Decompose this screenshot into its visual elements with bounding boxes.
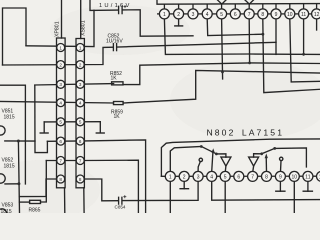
svg-text:XP801: XP801	[55, 21, 61, 37]
svg-text:11: 11	[305, 174, 310, 180]
wire N801 pin11 riser	[303, 19, 305, 55]
svg-text:1U/16V: 1U/16V	[106, 38, 123, 44]
arrowhead pin8 switch2	[265, 153, 268, 158]
svg-text:2: 2	[59, 62, 62, 67]
svg-text:8: 8	[261, 12, 264, 18]
wire N801 pin4 to pin8 riser	[207, 19, 263, 36]
svg-text:4: 4	[210, 174, 213, 180]
pin numbers XP801	[59, 45, 81, 182]
svg-text:1K: 1K	[111, 75, 118, 81]
node switch2 arm end	[260, 152, 263, 155]
svg-text:1: 1	[59, 45, 62, 50]
wire contact to pin9	[280, 161, 283, 172]
svg-text:5: 5	[220, 12, 223, 18]
svg-text:N802 LA7151: N802 LA7151	[207, 127, 285, 137]
svg-text:8: 8	[265, 174, 268, 180]
plus mark C854	[123, 195, 126, 198]
op-amp buffer A1	[221, 157, 231, 166]
arrow from N802 pin8	[265, 156, 267, 171]
wire row3 left segment	[0, 85, 25, 184]
wire N801 pin5 riser	[222, 19, 223, 79]
svg-text:7: 7	[251, 174, 254, 180]
wire V852 emitter row	[5, 183, 19, 185]
svg-text:3: 3	[197, 174, 200, 180]
wire row3 through connectors to R852	[35, 84, 114, 85]
svg-text:1: 1	[79, 45, 82, 50]
wire R859 right long line to right edge	[123, 70, 320, 103]
svg-text:3: 3	[192, 12, 195, 18]
N801 internal V mark above pin7	[245, 0, 254, 4]
wire C851 left	[90, 0, 118, 10]
svg-text:4: 4	[59, 100, 62, 105]
transistor V853	[0, 209, 7, 218]
svg-text:7: 7	[59, 158, 62, 163]
svg-text:4: 4	[206, 12, 209, 18]
wire rail from row3 to V851 junction and pin6 loop	[35, 85, 48, 152]
svg-text:XS801: XS801	[81, 20, 87, 36]
node N801.5 / R859 line	[221, 71, 224, 74]
IC N802 body bottom edge	[161, 175, 320, 177]
N801 internal V mark above pin5	[218, 0, 227, 4]
pin numbers N801	[163, 12, 320, 18]
wire row6 XP801.6-XS801.6 to middle rail	[47, 140, 145, 213]
capacitor C851	[118, 6, 120, 13]
ground left of XP801 pin5	[43, 122, 45, 132]
wire N801 pin7 riser	[248, 19, 250, 63]
wire row7 XP801.7-XS801.7 to middle rail	[46, 160, 138, 213]
svg-text:6: 6	[79, 139, 82, 144]
transistor V852	[0, 174, 5, 183]
svg-text:2: 2	[177, 12, 180, 18]
svg-text:10: 10	[287, 12, 293, 18]
svg-text:12: 12	[314, 12, 320, 18]
wire switch1 to amp1	[216, 154, 226, 157]
node V851 wire / rail	[17, 140, 20, 143]
wire XS801 top line	[80, 0, 82, 39]
wire C854 right to N802 pin3	[122, 181, 198, 200]
switch1 arm	[201, 147, 216, 154]
node N801.11 / pin1 line	[302, 53, 305, 56]
svg-text:7: 7	[79, 158, 82, 163]
ground at N802 pin11	[307, 181, 309, 191]
wire XS801 bottom stub	[83, 188, 85, 213]
wire N801 pin1 long line to right edge	[164, 19, 320, 55]
wire XP801 top line	[61, 0, 63, 38]
contact circle above N802 pin3	[199, 158, 202, 161]
resistor R852	[112, 82, 123, 85]
contact circle above N802 pin9	[280, 157, 283, 160]
capacitor C852	[112, 44, 114, 51]
wire N801 pin9 riser down to pin1 line	[275, 19, 277, 55]
wire XP801.8 to left rail	[20, 179, 57, 197]
wire contact to pin3	[198, 162, 200, 172]
wire row5 with grounds	[44, 121, 100, 123]
wire amp2 to pin7	[252, 166, 255, 172]
svg-text:2: 2	[79, 62, 82, 67]
ground at N802 pin9	[279, 181, 281, 191]
ground at N801 pin2	[178, 19, 180, 26]
wire amp1 to pin5	[224, 166, 227, 172]
wire rail V851/V852 down	[18, 141, 19, 213]
svg-text:11: 11	[301, 12, 306, 18]
svg-text:1U/16V: 1U/16V	[99, 3, 132, 9]
connector XS801 box	[76, 39, 84, 188]
IC N801 pins 1-12	[159, 9, 320, 19]
IC N801 pin links	[157, 4, 317, 14]
connector XP801 box	[57, 38, 85, 188]
wire N801 pin8 riser long	[263, 19, 320, 93]
plus mark C851	[124, 5, 127, 8]
svg-text:5: 5	[79, 120, 82, 125]
resistor R859	[114, 102, 124, 105]
node V852 wire / rail	[17, 182, 20, 185]
wire N801 pin12 stub	[316, 19, 318, 30]
resistor R865	[30, 200, 41, 203]
svg-text:R865: R865	[29, 208, 41, 214]
wire top-left staircase (XP801 pin1 net)	[3, 8, 27, 65]
arrow from N802 pin4	[212, 151, 213, 172]
svg-text:2: 2	[183, 174, 186, 180]
IC N801 body bottom edge	[157, 0, 320, 4]
svg-text:6: 6	[234, 12, 237, 18]
svg-text:9: 9	[279, 174, 282, 180]
pin numbers N802	[169, 174, 320, 180]
svg-text:6: 6	[59, 139, 62, 144]
svg-text:7: 7	[248, 12, 251, 18]
svg-text:1815: 1815	[4, 115, 15, 121]
connector pins XP801	[57, 44, 84, 184]
svg-text:8: 8	[79, 177, 82, 182]
wire N801 pin10 to right edge	[290, 19, 320, 82]
wire C851 right to N801 pin3	[123, 10, 193, 36]
svg-text:8: 8	[59, 177, 62, 182]
node N801.4 / pin8 riser	[262, 33, 265, 36]
svg-text:10: 10	[292, 174, 298, 180]
svg-text:1K: 1K	[114, 114, 121, 120]
svg-text:1: 1	[163, 12, 166, 18]
svg-text:1: 1	[169, 174, 172, 180]
svg-text:5: 5	[59, 120, 62, 125]
node N801.7 / R852 line	[248, 62, 251, 65]
ground at N802 pin2	[183, 181, 185, 189]
wire row2 XP801.2-XS801.2 to C852	[3, 47, 114, 65]
arrowhead pin4 switch1	[212, 148, 215, 153]
svg-text:3: 3	[79, 82, 82, 87]
svg-text:9: 9	[275, 12, 278, 18]
svg-text:6: 6	[237, 174, 240, 180]
wire R865 right to XP801.7	[41, 161, 47, 203]
svg-text:V853: V853	[2, 203, 14, 209]
node switch2 common	[273, 147, 276, 150]
svg-text:1815: 1815	[4, 164, 15, 170]
svg-text:4: 4	[79, 101, 82, 106]
transistor V851	[0, 126, 5, 135]
wire row4 from left edge to R859	[0, 101, 114, 103]
wire switch2 common to pin11	[275, 148, 307, 167]
wire row8 XS801.8 to C854	[85, 179, 119, 201]
wire row1 XP801.1-XS801.1	[26, 10, 94, 46]
wire R865 left lead	[20, 201, 30, 203]
switch2 arm	[262, 148, 275, 153]
connector pins XS801	[76, 44, 84, 52]
wire N802 pin4 bottom bus to right edge	[212, 181, 320, 200]
ground right of XS801 pin5	[99, 122, 101, 132]
node switch1 common	[200, 145, 203, 148]
wire N802 pin1 internal riser to switch1	[170, 147, 201, 172]
wire N802 pin10 down	[293, 181, 295, 213]
wire C852 right to N801 pin9	[117, 42, 276, 47]
svg-text:3: 3	[59, 82, 62, 87]
wire triangle2 top to switch2	[254, 154, 262, 157]
IC N802 pins 1-12	[165, 171, 320, 181]
svg-text:1815: 1815	[1, 209, 12, 213]
wire V851 collector row	[5, 140, 35, 142]
IC N802 body outline	[161, 139, 320, 176]
wire XP801 bottom stub	[64, 188, 66, 213]
svg-text:5: 5	[224, 174, 227, 180]
wire R852 right long line to right edge	[123, 63, 320, 85]
wire N802 pin5 down	[224, 181, 226, 213]
capacitor C854	[118, 197, 120, 204]
N801 pin stubs to body	[163, 4, 165, 9]
node switch1 arm end	[215, 153, 218, 156]
wire N802 pin1 down	[169, 181, 171, 213]
op-amp buffer A2	[249, 157, 259, 166]
svg-text:C854: C854	[115, 205, 126, 210]
